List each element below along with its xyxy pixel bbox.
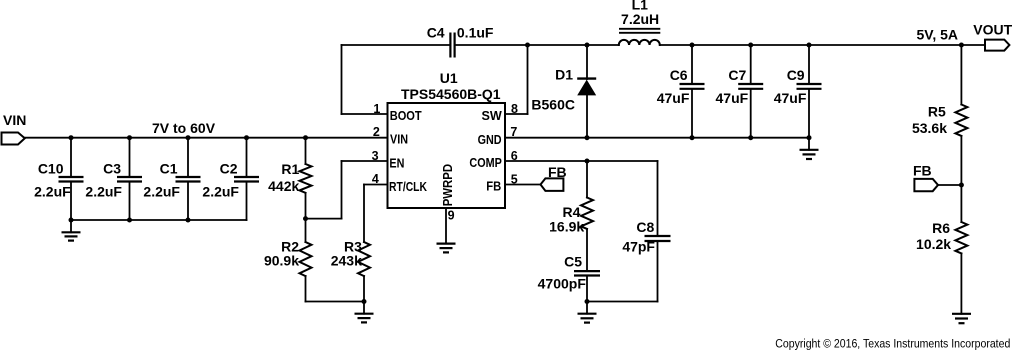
- junction C7 bottom: [748, 135, 753, 140]
- svg-text:7: 7: [510, 125, 517, 139]
- junction bottom rail at C1: [186, 218, 191, 223]
- svg-text:SW: SW: [482, 109, 502, 123]
- junction input rail at C10: [69, 135, 74, 140]
- capacitor C10: [34, 138, 83, 220]
- svg-text:FB: FB: [548, 164, 567, 180]
- wire BOOT riser: [341, 45, 343, 114]
- svg-text:C5: C5: [564, 254, 582, 270]
- svg-text:C9: C9: [787, 67, 805, 83]
- svg-text:C6: C6: [670, 67, 688, 83]
- svg-text:FB: FB: [486, 180, 501, 194]
- wire FB right to divider: [938, 184, 961, 186]
- node FB connector left: [541, 164, 567, 191]
- ground R2 R3: [355, 302, 374, 323]
- node VOUT connector: [973, 21, 1012, 50]
- svg-text:C2: C2: [220, 161, 238, 177]
- wire top rail BOOT to C4: [342, 44, 450, 46]
- svg-text:C10: C10: [38, 161, 64, 177]
- junction input rail at C1: [186, 135, 191, 140]
- junction C6 top: [690, 43, 695, 48]
- resistor R6 10.2k: [916, 220, 967, 314]
- junction bottom rail at C10: [69, 218, 74, 223]
- svg-text:4700pF: 4700pF: [538, 276, 587, 292]
- wire main input rail VIN to U1 pin2: [25, 137, 388, 139]
- wire COMP pin6 to C8: [505, 160, 658, 162]
- svg-text:VIN: VIN: [390, 133, 408, 147]
- resistor R3 243k: [331, 239, 370, 302]
- svg-text:9: 9: [448, 209, 455, 223]
- wire U1 pin1 BOOT to riser: [342, 113, 388, 115]
- svg-text:7.2uH: 7.2uH: [621, 11, 659, 27]
- capacitor C9 47uF: [774, 45, 822, 138]
- svg-text:C3: C3: [103, 161, 121, 177]
- junction C7 top: [748, 43, 753, 48]
- resistor R2 90.9k: [264, 219, 312, 302]
- ground output caps: [800, 138, 819, 159]
- junction D1 bottom on GND rail: [585, 135, 590, 140]
- junction C5 bottom ground node: [585, 299, 590, 304]
- svg-text:90.9k: 90.9k: [264, 253, 299, 269]
- capacitor C6 47uF: [657, 45, 705, 138]
- svg-text:0.1uF: 0.1uF: [457, 24, 494, 40]
- capacitor C2: [202, 138, 259, 220]
- svg-text:PWRPD: PWRPD: [441, 164, 455, 206]
- svg-text:2.2uF: 2.2uF: [34, 184, 71, 200]
- svg-text:10.2k: 10.2k: [916, 236, 951, 252]
- svg-text:C1: C1: [160, 161, 178, 177]
- svg-text:BOOT: BOOT: [390, 109, 422, 123]
- svg-text:5V, 5A: 5V, 5A: [916, 27, 958, 43]
- wire GND rail U1 pin7 to C9: [505, 137, 809, 139]
- junction D1 top node: [585, 43, 590, 48]
- svg-text:47uF: 47uF: [716, 90, 749, 106]
- junction bottom rail at C3: [127, 218, 132, 223]
- junction FB divider node: [959, 183, 964, 188]
- capacitor C4 0.1uF: [427, 24, 494, 57]
- svg-text:COMP: COMP: [469, 156, 501, 170]
- junction VOUT divider top: [959, 43, 964, 48]
- resistor R5 53.6k: [912, 45, 967, 222]
- op-amp U1 TPS54560B-Q1 IC box: [388, 70, 506, 208]
- wire input cap bottom rail: [71, 219, 247, 221]
- svg-text:R6: R6: [932, 220, 950, 236]
- wire EN riser: [341, 161, 343, 219]
- svg-text:RT/CLK: RT/CLK: [389, 180, 427, 194]
- svg-text:2.2uF: 2.2uF: [85, 184, 122, 200]
- junction input rail at C2: [244, 135, 249, 140]
- junction R3 bottom ground node: [362, 299, 367, 304]
- svg-text:VOUT: VOUT: [973, 21, 1012, 37]
- svg-text:GND: GND: [478, 133, 502, 147]
- junction C6 bottom: [690, 135, 695, 140]
- capacitor C8 47pF: [622, 161, 670, 302]
- svg-text:47pF: 47pF: [622, 239, 655, 255]
- svg-text:7V to 60V: 7V to 60V: [152, 120, 216, 136]
- svg-text:EN: EN: [389, 156, 404, 170]
- svg-text:442k: 442k: [268, 178, 299, 194]
- wire U1 pin9 PWRPD stub: [445, 208, 447, 244]
- svg-text:47uF: 47uF: [774, 90, 807, 106]
- svg-text:R5: R5: [928, 104, 946, 120]
- resistor R1 442k: [268, 138, 311, 219]
- capacitor C3: [85, 138, 142, 220]
- svg-text:D1: D1: [555, 66, 573, 82]
- svg-text:2: 2: [373, 125, 380, 139]
- wire top rail C4 to L1: [456, 44, 619, 46]
- svg-text:FB: FB: [913, 163, 932, 179]
- wire C5-C8 bottom rail: [587, 301, 658, 303]
- wire U1 pin5 FB stub: [505, 184, 541, 186]
- junction input rail at R1: [303, 135, 308, 140]
- wire R2-R3 bottom rail: [306, 301, 365, 303]
- ground U1 PWRPD: [437, 244, 456, 253]
- svg-text:Copyright © 2016, Texas Instru: Copyright © 2016, Texas Instruments Inco…: [775, 336, 1010, 350]
- ground R6: [952, 314, 971, 323]
- svg-text:3: 3: [372, 149, 379, 163]
- svg-text:U1: U1: [440, 70, 458, 86]
- wire U1 pin8 SW stub: [505, 113, 528, 115]
- wire EN to U1 pin3: [342, 160, 388, 162]
- diode D1 B560C: [531, 45, 596, 138]
- capacitor C5 4700pF: [538, 254, 600, 302]
- svg-text:2.2uF: 2.2uF: [143, 184, 180, 200]
- svg-text:47uF: 47uF: [657, 90, 690, 106]
- node VIN input connector: [2, 112, 27, 145]
- wire R3 riser: [363, 185, 365, 243]
- svg-text:16.9k: 16.9k: [549, 219, 584, 235]
- wire RT/CLK pin4 to riser: [364, 184, 388, 186]
- junction C9 top: [807, 43, 812, 48]
- resistor R4 16.9k: [549, 161, 593, 270]
- junction C9 bottom ground node: [807, 135, 812, 140]
- svg-text:C4: C4: [427, 24, 445, 40]
- wire SW riser: [527, 45, 529, 114]
- svg-text:VIN: VIN: [3, 112, 26, 128]
- wire top rail L1 to VOUT: [660, 44, 985, 46]
- ground input caps: [62, 220, 81, 241]
- svg-text:R1: R1: [281, 161, 299, 177]
- svg-text:C8: C8: [636, 219, 654, 235]
- capacitor C7 47uF: [716, 45, 764, 138]
- svg-text:C7: C7: [728, 67, 746, 83]
- junction SW node on top rail: [525, 43, 530, 48]
- svg-text:243k: 243k: [331, 253, 362, 269]
- svg-text:4: 4: [372, 172, 379, 186]
- inductor L1 7.2uH: [619, 0, 661, 45]
- ground C5: [578, 302, 597, 323]
- node FB connector right: [913, 163, 938, 192]
- junction input rail at C3: [127, 135, 132, 140]
- capacitor C1: [143, 138, 200, 220]
- junction COMP-R4 node: [585, 159, 590, 164]
- wire EN node to riser: [306, 218, 342, 220]
- svg-text:B560C: B560C: [531, 97, 575, 113]
- svg-text:53.6k: 53.6k: [912, 120, 947, 136]
- svg-text:2.2uF: 2.2uF: [202, 184, 239, 200]
- junction R1-R2-EN node: [303, 216, 308, 221]
- svg-text:TPS54560B-Q1: TPS54560B-Q1: [401, 86, 501, 102]
